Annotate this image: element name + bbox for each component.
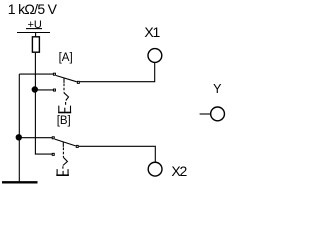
wire ground branch to switch A upper throw (19, 73, 53, 75)
switch B actuation dashed link (62, 148, 64, 158)
indicator X1 lamp (148, 49, 162, 63)
label X1 (144, 25, 159, 39)
ground bar (2, 181, 38, 183)
indicator X2 lamp (148, 162, 162, 176)
wire node2 to switch B upper throw (19, 137, 52, 139)
label [B] (57, 116, 71, 128)
switch A actuation dashed link (63, 84, 65, 93)
wire node1 to switch A lower throw (35, 89, 53, 91)
switch B manual actuator cup (57, 169, 68, 175)
supply +U underline (26, 28, 42, 30)
switch A lever (56, 76, 77, 82)
label +U (28, 20, 42, 31)
switch A spring chevron (64, 93, 69, 101)
switch A link dash (65, 102, 67, 105)
switch A lower throw contact (53, 89, 55, 91)
wire Y stub (200, 113, 211, 115)
switch B link dash (62, 166, 64, 168)
switch B actuator stub (62, 142, 64, 147)
wire switch B common to X2 (79, 146, 156, 162)
label [A] (59, 53, 73, 65)
switch B upper throw contact (52, 137, 54, 139)
wire rail to resistor (35, 33, 37, 37)
switch B lever (55, 139, 76, 146)
label X2 (171, 164, 186, 178)
wire main vertical from resistor to switch B lower throw (35, 53, 52, 154)
switch B spring chevron (63, 157, 68, 165)
wire switch A common to X1 (80, 63, 155, 82)
switch B common contact (76, 145, 78, 147)
switch B lower throw contact (52, 153, 54, 155)
node junction 2 (16, 134, 22, 140)
wire ground vertical (18, 74, 20, 182)
supply rail (17, 32, 50, 34)
node junction 1 (32, 86, 38, 92)
switch A upper throw contact (53, 73, 55, 75)
switch A common contact (77, 81, 79, 83)
label 1 kOhm/5 V (8, 2, 56, 16)
switch A manual actuator cup (59, 106, 71, 112)
switch A actuator stub (63, 78, 65, 83)
label Y (213, 83, 221, 96)
resistor R 1kOhm (32, 37, 39, 52)
indicator Y lamp (211, 107, 225, 121)
